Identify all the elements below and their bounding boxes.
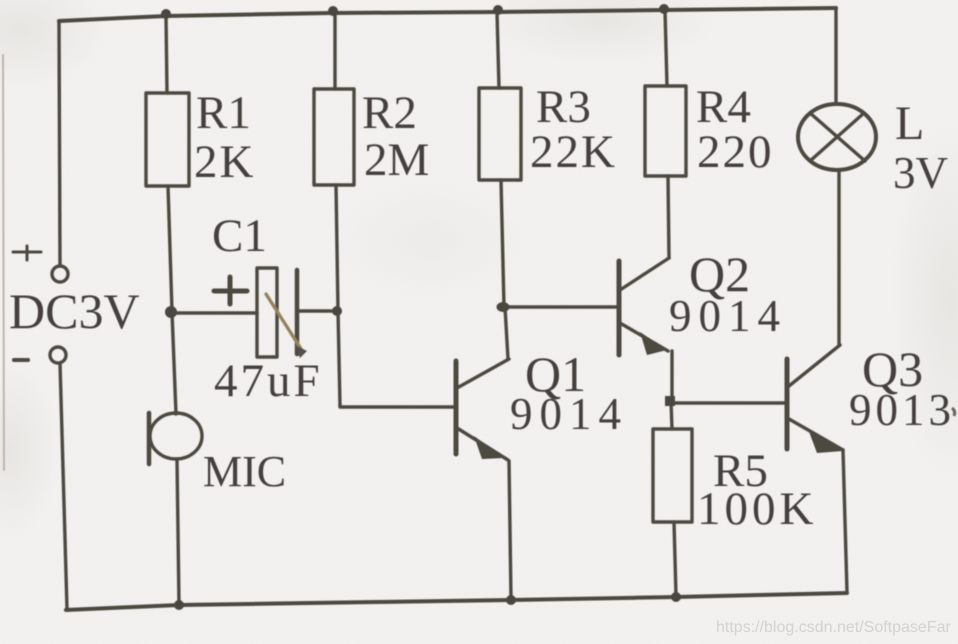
label + of battery (13, 246, 41, 260)
transistor Q3 base bar (785, 359, 790, 449)
svg-text:https://blog.csdn.net/Softpase: https://blog.csdn.net/SoftpaseFar (716, 619, 951, 636)
svg-text:22K: 22K (530, 126, 617, 178)
wire R5 bottom lead to bottom rail (674, 522, 676, 596)
transistor Q3 emitter arrow (808, 429, 843, 453)
wire Q1 collector to node C (505, 307, 508, 359)
wire from - terminal to bottom rail (60, 363, 67, 609)
transistor Q2 collector diagonal (620, 258, 669, 290)
resistor R3 (479, 88, 521, 180)
microphone MIC circle (150, 413, 202, 459)
wire node D to Q3 base (670, 401, 787, 404)
battery + terminal circle (52, 266, 68, 282)
wire R1 bottom lead to node A (168, 186, 172, 311)
transistor Q1 base bar (454, 361, 459, 454)
svg-text:2K: 2K (194, 136, 255, 188)
junction node on rail above R1 (161, 9, 171, 19)
wire C1 to node B (297, 309, 337, 312)
wire lamp top lead (834, 8, 837, 104)
wire node B to Q1 base (340, 406, 456, 407)
wire top positive rail (59, 8, 836, 21)
wire Q3 emitter to bottom rail (843, 450, 847, 592)
svg-text:L: L (895, 97, 924, 150)
junction node on rail above R4 (659, 4, 669, 14)
transistor Q2 emitter arrow (640, 332, 667, 355)
wire R2 top lead (333, 13, 336, 89)
junction node bottom rail at MIC (174, 600, 184, 610)
transistor Q2 emitter diagonal (620, 323, 668, 351)
scan artifact left edge line (3, 55, 4, 470)
capacitor C1 positive plate (257, 268, 277, 357)
svg-text:9014: 9014 (669, 291, 787, 341)
transistor Q3 collector diagonal (789, 345, 840, 386)
wire left branch from rail to + terminal (59, 21, 60, 266)
svg-text:MIC: MIC (203, 447, 286, 496)
wire node C to Q2 base (504, 305, 618, 308)
junction node bottom rail at Q1 emitter (506, 595, 516, 605)
transistor Q3 emitter diagonal (789, 419, 843, 450)
junction node C at R3 bottom (497, 302, 510, 312)
svg-text:DC3V: DC3V (9, 283, 140, 339)
junction node on rail above R3 (493, 5, 503, 15)
resistor R1 (146, 93, 189, 186)
svg-text:C1: C1 (212, 210, 267, 262)
wire node A to MIC (172, 312, 176, 414)
wire bottom negative rail (66, 593, 847, 610)
junction node D at Q2 emitter (665, 396, 675, 406)
capacitor C1 negative plate (295, 270, 300, 354)
microphone MIC flat plate (147, 413, 152, 464)
wire MIC bottom lead (177, 459, 179, 604)
wire R3 bottom lead to node C (501, 180, 504, 307)
wire Q2 emitter to node D (670, 351, 673, 400)
svg-text:9014: 9014 (510, 389, 628, 439)
transistor Q1 emitter diagonal (457, 428, 508, 460)
resistor R2 (314, 89, 354, 185)
stray stroke dark tip (295, 345, 307, 358)
partial clipped glyph after 9013 (952, 408, 955, 416)
wire Q2 collector to R4 (668, 176, 669, 258)
lamp L cross stroke 2 (810, 113, 864, 161)
wire lamp to Q3 collector (837, 170, 840, 345)
junction node A at R1 bottom (165, 306, 177, 318)
svg-text:2M: 2M (364, 134, 429, 186)
wire Q1 emitter to bottom rail (509, 461, 511, 599)
svg-text:9013: 9013 (849, 385, 955, 435)
resistor R4 (645, 86, 686, 176)
junction node bottom rail at R5 (671, 592, 681, 602)
svg-text:R1: R1 (196, 87, 251, 139)
svg-text:100K: 100K (697, 483, 817, 535)
wire node A to C1 left plate (171, 311, 257, 314)
svg-text:220: 220 (697, 126, 774, 178)
transistor Q1 collector diagonal (457, 359, 509, 388)
stray diagonal pen stroke across C1 (266, 294, 303, 352)
junction node B at C1 output (332, 306, 342, 316)
transistor Q2 base bar (617, 261, 622, 355)
svg-text:47uF: 47uF (214, 355, 323, 407)
svg-text:R2: R2 (362, 87, 417, 139)
battery - terminal circle (50, 347, 66, 363)
transistor Q1 emitter arrow (474, 436, 504, 459)
wire R4 top lead (665, 10, 667, 86)
junction node on rail above R2 (328, 6, 338, 16)
wire node D to R5 (671, 401, 672, 429)
resistor R5 (653, 429, 692, 522)
wire R2 bottom lead through node B down (336, 185, 340, 406)
lamp L cross stroke 1 (810, 113, 865, 161)
capacitor C1 polarity plus mark (214, 277, 247, 304)
wire R1 top lead (166, 16, 167, 93)
wire R3 top lead (497, 12, 499, 88)
svg-text:3V: 3V (893, 148, 948, 198)
label - of battery (14, 358, 28, 362)
lamp L circle (798, 104, 876, 170)
